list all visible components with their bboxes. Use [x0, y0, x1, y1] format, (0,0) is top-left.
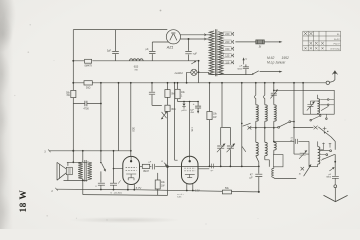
capacitor C5 4700 [73, 101, 101, 106]
lamp dial [191, 69, 197, 75]
IF coil column 2 [264, 83, 266, 95]
wire x177.5 upper [177, 83, 179, 90]
capacitor C14 47pF [274, 139, 309, 144]
IF coil column 3 [273, 83, 275, 93]
tube V2 AL4 [182, 156, 199, 184]
switch arm lower [304, 165, 311, 176]
resistor R4 0M5 [165, 90, 170, 98]
svg-text:150: 150 [225, 48, 230, 51]
switch row [294, 127, 313, 129]
svg-text:5µF,: 5µF, [107, 50, 112, 52]
fuse Si [256, 40, 264, 44]
svg-text:0M479: 0M479 [84, 64, 92, 67]
svg-text:µF,: µF, [146, 49, 149, 51]
switch S1 [100, 151, 102, 162]
wire rail A ground [57, 189, 259, 192]
svg-text:2: 2 [51, 190, 53, 193]
wire trimmer feed [274, 89, 303, 91]
svg-text:4×2×0,5µ: 4×2×0,5µ [330, 48, 340, 51]
coupling loop frame [273, 155, 283, 167]
wire mains line from 220 tap [235, 41, 255, 43]
svg-text:1W: 1W [134, 69, 138, 71]
svg-text:µF10: µF10 [181, 110, 187, 112]
wire x113.5 [113, 151, 115, 183]
svg-text:µF: µF [149, 162, 152, 164]
resistor R10 [222, 190, 231, 194]
node B [166, 165, 169, 168]
trimmer mark right [323, 127, 327, 131]
svg-text:125: 125 [225, 55, 230, 58]
wire rail y150.8 [50, 150, 132, 152]
wire x167.5 upper [167, 83, 169, 90]
wire left rail [72, 30, 74, 151]
resistor R9 10k1W [157, 173, 159, 180]
tuning capacitor CV1 [217, 127, 224, 166]
wire x241.8 switch bank [241, 83, 243, 167]
coil L2 in box [316, 95, 318, 99]
svg-text:10k: 10k [181, 92, 186, 94]
svg-text:Si: Si [259, 45, 262, 49]
wire coil2 bottom [265, 156, 270, 167]
svg-text:450: 450 [190, 112, 194, 114]
wire x174.6 [175, 83, 178, 160]
svg-text:50Ω: 50Ω [86, 87, 91, 89]
wire x130.8 tube1 top [130, 83, 132, 157]
wire speaker bottom [64, 175, 88, 181]
capacitor C13 47uF [255, 167, 262, 192]
loudspeaker [57, 162, 60, 180]
svg-text:AZ1: AZ1 [166, 46, 174, 50]
resistor R5 0M1 [165, 105, 170, 111]
wire x222 jog [221, 83, 231, 128]
capacitor C6 [149, 83, 162, 106]
capacitor C2 [149, 42, 155, 61]
svg-text:50k: 50k [225, 188, 230, 190]
wire lamp right [197, 72, 209, 74]
capacitor C12 coupling [150, 164, 168, 170]
svg-text:5000: 5000 [237, 68, 243, 70]
svg-text:B: B [161, 161, 163, 163]
svg-text:S→(21,8Ω·): S→(21,8Ω·) [110, 192, 122, 194]
resistor R7 10k1W [207, 112, 212, 120]
wire mains to arrow [264, 41, 280, 43]
svg-text:µF: µF [250, 177, 253, 180]
capacitor C9 6800 [332, 176, 339, 185]
capacitor mark [212, 164, 214, 169]
wire top rail [73, 29, 167, 31]
transformer T1 core [215, 29, 217, 76]
trimmer T3 [294, 153, 309, 155]
wire HT rail y61 [73, 60, 198, 62]
svg-text:1W: 1W [213, 117, 217, 119]
capacitor C11 [110, 183, 117, 189]
resistor R3 [71, 90, 76, 97]
svg-text:6800: 6800 [326, 177, 331, 179]
resistor R2 [84, 81, 92, 85]
switch contacts below box [310, 119, 312, 121]
svg-text:1952: 1952 [282, 56, 290, 60]
voltage table [303, 30, 341, 32]
svg-text:4µF: 4µF [190, 109, 194, 111]
capacitor C3 reservoir [188, 38, 190, 40]
coil L3 [317, 141, 319, 146]
capacitor C8 electrolytic 4uF [195, 102, 201, 112]
resistor R6 10k [175, 89, 180, 98]
svg-text:»P·: »P· [210, 170, 213, 172]
wire x209.5 lower [209, 120, 211, 167]
wire mains bottom [209, 74, 252, 76]
link winding [273, 167, 275, 169]
voltage arrow V1 [243, 59, 245, 64]
svg-text:1: 1 [181, 96, 183, 98]
svg-text:18 W: 18 W [19, 190, 29, 213]
wire x189.6 tube2 top [189, 102, 191, 158]
svg-text:6,35: 6,35 [177, 196, 182, 198]
svg-text:3: 3 [44, 151, 46, 154]
wire speaker rail drop [72, 151, 74, 163]
resistor R8 0M47 [142, 164, 149, 168]
wire filament pair [180, 35, 210, 39]
wire x209.5 [209, 83, 211, 112]
transformer T1 secondary winding [209, 31, 214, 75]
output transformer primary [82, 151, 84, 162]
inductor L1 choke [130, 59, 144, 61]
svg-text:6Ω3: 6Ω3 [134, 66, 139, 69]
svg-text:50k: 50k [66, 92, 71, 94]
svg-text:3Ω5: 3Ω5 [131, 127, 135, 132]
svg-text:220: 220 [225, 41, 230, 44]
earth symbol [324, 195, 348, 201]
svg-text:+: + [193, 102, 195, 106]
antenna terminal [326, 81, 329, 84]
wire mid rail y82.8 [73, 82, 326, 84]
svg-text:1W: 1W [161, 185, 165, 187]
junction arrow [191, 61, 196, 64]
wire x118.5 [118, 83, 120, 151]
svg-text:110: 110 [225, 62, 229, 65]
svg-text:netzkl.: netzkl. [175, 71, 184, 75]
svg-text:B+2V: B+2V [334, 39, 340, 41]
wire grid feed [178, 99, 199, 102]
capacitor C1 [112, 30, 119, 61]
tube V1 pins [128, 185, 134, 190]
rectifier tube AZ1 [166, 30, 180, 44]
transformer T1 primary winding [218, 32, 223, 75]
wire tube V1 grid [114, 168, 123, 170]
transformer tap 220V [223, 41, 233, 43]
svg-text:µ: µ [96, 185, 98, 187]
svg-text:240: 240 [225, 33, 230, 36]
transformer tap 110V [223, 61, 233, 63]
tube V2 pins [187, 184, 193, 191]
transformer tap 125V [223, 55, 233, 57]
wire lamp left [187, 72, 191, 83]
svg-text:4700: 4700 [83, 108, 89, 111]
svg-text:M.62: M.62 [267, 56, 274, 60]
svg-text:σ→≉·→: σ→≉·→ [177, 193, 184, 196]
svg-text:St: St [299, 173, 301, 176]
capacitor C4 5000 [243, 64, 249, 74]
output transformer core [85, 160, 86, 182]
wire drop x198.6 [198, 61, 200, 83]
resistor R1 0M29 [85, 59, 92, 63]
capacitor C10 [98, 183, 105, 189]
wire x335.2 down [334, 154, 336, 176]
wire grid rail [168, 166, 259, 168]
switch contacts in box [320, 100, 327, 105]
spark gap symbol [162, 112, 167, 118]
svg-text:M.Lp Januar: M.Lp Januar [267, 60, 286, 64]
transformer tap 150V [223, 48, 233, 50]
switch arm right [322, 154, 335, 159]
transformer tap 240V [223, 33, 233, 35]
wire coil1 bottom [256, 156, 259, 167]
svg-text:0M47: 0M47 [143, 171, 149, 173]
band loop [309, 141, 318, 166]
switch mains [252, 73, 254, 75]
tuning capacitor CV2 [227, 127, 234, 166]
wire rail B [83, 194, 168, 197]
svg-text:≡µF: ≡µF [193, 52, 198, 55]
wire coil3 bottom [273, 150, 275, 155]
output transformer secondary [88, 162, 92, 180]
capacitor C7 electrolytic small [183, 102, 185, 104]
svg-text:KL: KL [337, 34, 340, 36]
wire R4-R5 [167, 97, 169, 105]
svg-text:1W: 1W [66, 95, 70, 97]
IF coil column 1 [255, 83, 257, 95]
svg-text:5,7V: 5,7V [136, 186, 142, 190]
shield box [303, 90, 334, 114]
wire box rail stub [302, 83, 304, 91]
wire x186.6 lamp drop [186, 82, 188, 84]
wire x100.9 upper [100, 83, 102, 151]
coil L3 contacts [320, 151, 330, 155]
svg-text:4,3V: 4,3V [194, 188, 200, 192]
wire speaker top [67, 162, 88, 166]
svg-text:µF: µF [240, 65, 243, 67]
svg-text:V: V [245, 58, 247, 61]
tube V1 AF7 [123, 156, 140, 184]
svg-text:10k: 10k [161, 182, 166, 184]
wire coil mid link [249, 127, 278, 129]
contact stubs [324, 143, 331, 150]
wire x292.9 [293, 83, 295, 154]
svg-text:0,3A: 0,3A [191, 127, 194, 132]
switch band contact [278, 126, 280, 128]
svg-text:10k: 10k [213, 114, 218, 116]
svg-text:P42.V: P42.V [334, 44, 340, 46]
trimmer T2 [307, 101, 317, 114]
svg-text:0M1: 0M1 [171, 109, 176, 111]
wire x167.5 lower [167, 111, 169, 195]
wire tube V1 plate [140, 165, 143, 167]
